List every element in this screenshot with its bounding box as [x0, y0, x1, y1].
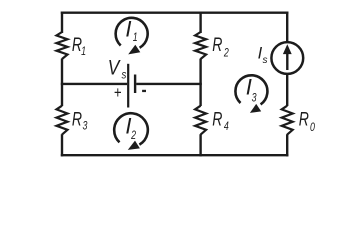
- wire: right vertical, above current source: [286, 12, 288, 43]
- battery Vs: long plate: [127, 64, 129, 108]
- resistor R0: [282, 106, 293, 135]
- wire: middle vertical, bottom lead of R4: [199, 134, 201, 156]
- wire: top horizontal: [61, 11, 289, 13]
- wire: middle horizontal, left of battery: [61, 83, 127, 85]
- mesh current I1: arc arrow: [116, 18, 148, 55]
- svg-text:1: 1: [81, 45, 86, 59]
- svg-text:4: 4: [224, 119, 229, 133]
- current source Is: circle: [271, 42, 303, 74]
- svg-text:2: 2: [130, 128, 136, 142]
- wire: left vertical, top lead of R1: [61, 12, 63, 34]
- mesh current I3: arc arrow: [235, 75, 267, 113]
- resistor R3: [57, 106, 68, 135]
- svg-text:R: R: [72, 108, 82, 130]
- svg-text:R: R: [212, 34, 222, 56]
- wire: middle vertical, top lead of R2: [199, 12, 201, 34]
- current source Is: arrow head: [283, 44, 292, 54]
- svg-text:R: R: [212, 108, 222, 130]
- resistor R2: [195, 32, 206, 59]
- wire: middle horizontal, right of battery: [136, 83, 202, 85]
- wire: right vertical, between Is and R0: [286, 75, 288, 107]
- svg-text:I: I: [125, 17, 131, 42]
- mesh current I2: arc arrow: [114, 113, 148, 150]
- svg-text:R: R: [299, 108, 309, 130]
- resistor R4: [195, 106, 206, 135]
- label -: [142, 90, 146, 92]
- svg-text:Vs: Vs: [108, 56, 127, 82]
- svg-text:3: 3: [83, 119, 88, 133]
- svg-text:1: 1: [133, 31, 138, 45]
- wire: right vertical, below R0: [286, 134, 288, 156]
- current source Is: arrow shaft: [286, 52, 288, 70]
- wire: middle vertical, between R2 and R4: [199, 59, 201, 106]
- svg-text:+: +: [114, 84, 122, 103]
- wire: left vertical, bottom lead of R3: [61, 134, 63, 156]
- battery Vs: short plate: [134, 75, 136, 94]
- svg-text:0: 0: [310, 121, 315, 135]
- svg-text:2: 2: [223, 46, 229, 60]
- wire: bottom horizontal: [61, 154, 289, 156]
- wire: left vertical, between R1 and R3: [61, 59, 63, 106]
- svg-text:Is: Is: [258, 44, 268, 66]
- svg-text:3: 3: [252, 91, 257, 105]
- resistor R1: [57, 32, 68, 59]
